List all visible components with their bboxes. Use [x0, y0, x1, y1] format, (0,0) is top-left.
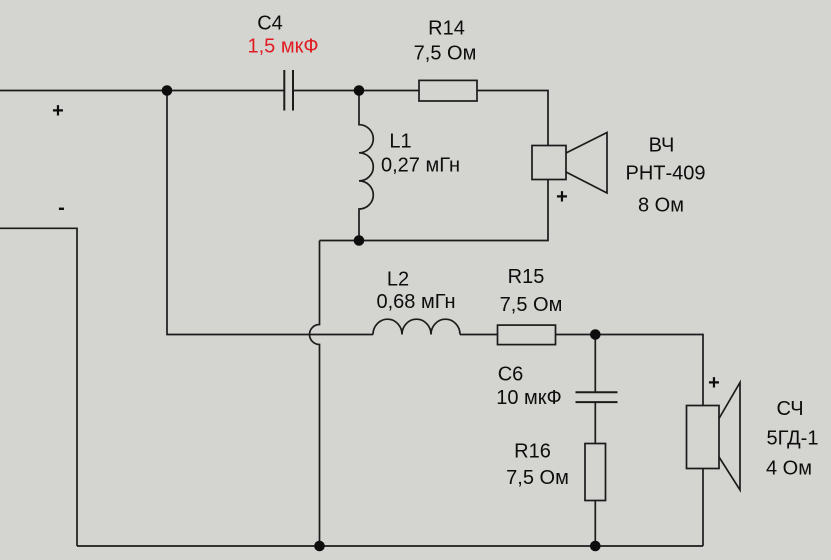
- svg-text:ВЧ: ВЧ: [649, 135, 675, 157]
- inductor L2: [373, 319, 460, 334]
- svg-text:7,5 Ом: 7,5 Ом: [500, 294, 563, 316]
- svg-text:0,27 мГн: 0,27 мГн: [381, 155, 460, 177]
- svg-text:0,68 мГн: 0,68 мГн: [377, 291, 456, 313]
- wire R14 to speaker BA1 top: [477, 91, 548, 146]
- svg-text:СЧ: СЧ: [776, 398, 803, 420]
- wire C6 to R16: [594, 402, 596, 443]
- svg-text:-: -: [58, 197, 65, 219]
- svg-text:R15: R15: [508, 266, 545, 288]
- svg-text:C4: C4: [257, 12, 283, 34]
- wire node down to C6: [594, 335, 596, 393]
- wire L2 to R15: [460, 334, 498, 336]
- wire C4 to R14: [293, 90, 419, 92]
- wire minus input: [0, 228, 77, 546]
- node R15 C6 junction: [590, 329, 601, 340]
- svg-text:1,5 мкФ: 1,5 мкФ: [247, 36, 318, 58]
- wire speaker VCh bottom to return: [320, 180, 549, 241]
- node L1 bottom: [354, 235, 365, 246]
- node bottom rail right: [590, 541, 601, 552]
- svg-text:L2: L2: [387, 268, 409, 290]
- wire bottom rail: [77, 545, 703, 547]
- svg-text:РНТ-409: РНТ-409: [625, 163, 705, 185]
- svg-text:5ГД-1: 5ГД-1: [767, 428, 819, 450]
- speaker SCh horn: [719, 383, 740, 491]
- wire R15 to node and to speaker SCh: [556, 335, 704, 406]
- svg-text:L1: L1: [389, 131, 411, 153]
- svg-text:+: +: [52, 100, 64, 122]
- node bottom rail left: [314, 541, 325, 552]
- wire VCh return vertical with hop: [310, 241, 320, 547]
- svg-text:R14: R14: [428, 17, 465, 39]
- svg-text:10 мкФ: 10 мкФ: [496, 387, 562, 409]
- svg-text:+: +: [556, 186, 568, 208]
- svg-text:7,5 Ом: 7,5 Ом: [414, 43, 477, 65]
- resistor R15: [498, 325, 556, 345]
- speaker VCh horn: [566, 133, 607, 194]
- resistor R16: [585, 444, 606, 501]
- svg-text:8 Ом: 8 Ом: [638, 195, 684, 217]
- svg-text:+: +: [708, 372, 720, 394]
- svg-text:C6: C6: [498, 364, 524, 386]
- svg-text:4 Ом: 4 Ом: [766, 458, 812, 480]
- svg-text:R16: R16: [514, 441, 551, 463]
- speaker SCh box: [687, 406, 720, 469]
- node C4 right L1 top: [354, 85, 365, 96]
- capacitor C4: [284, 70, 293, 111]
- inductor L1: [359, 91, 373, 241]
- speaker VCh box: [532, 146, 566, 180]
- wire speaker SCh bottom: [702, 469, 704, 547]
- capacitor C6: [576, 392, 618, 402]
- resistor R14: [419, 80, 477, 101]
- wire R16 to bottom: [594, 501, 596, 547]
- node top left junction: [162, 85, 173, 96]
- svg-text:7,5 Ом: 7,5 Ом: [506, 467, 569, 489]
- wire top plus input to C4: [0, 90, 284, 92]
- wire left branch from top node down and right to L2: [167, 91, 373, 335]
